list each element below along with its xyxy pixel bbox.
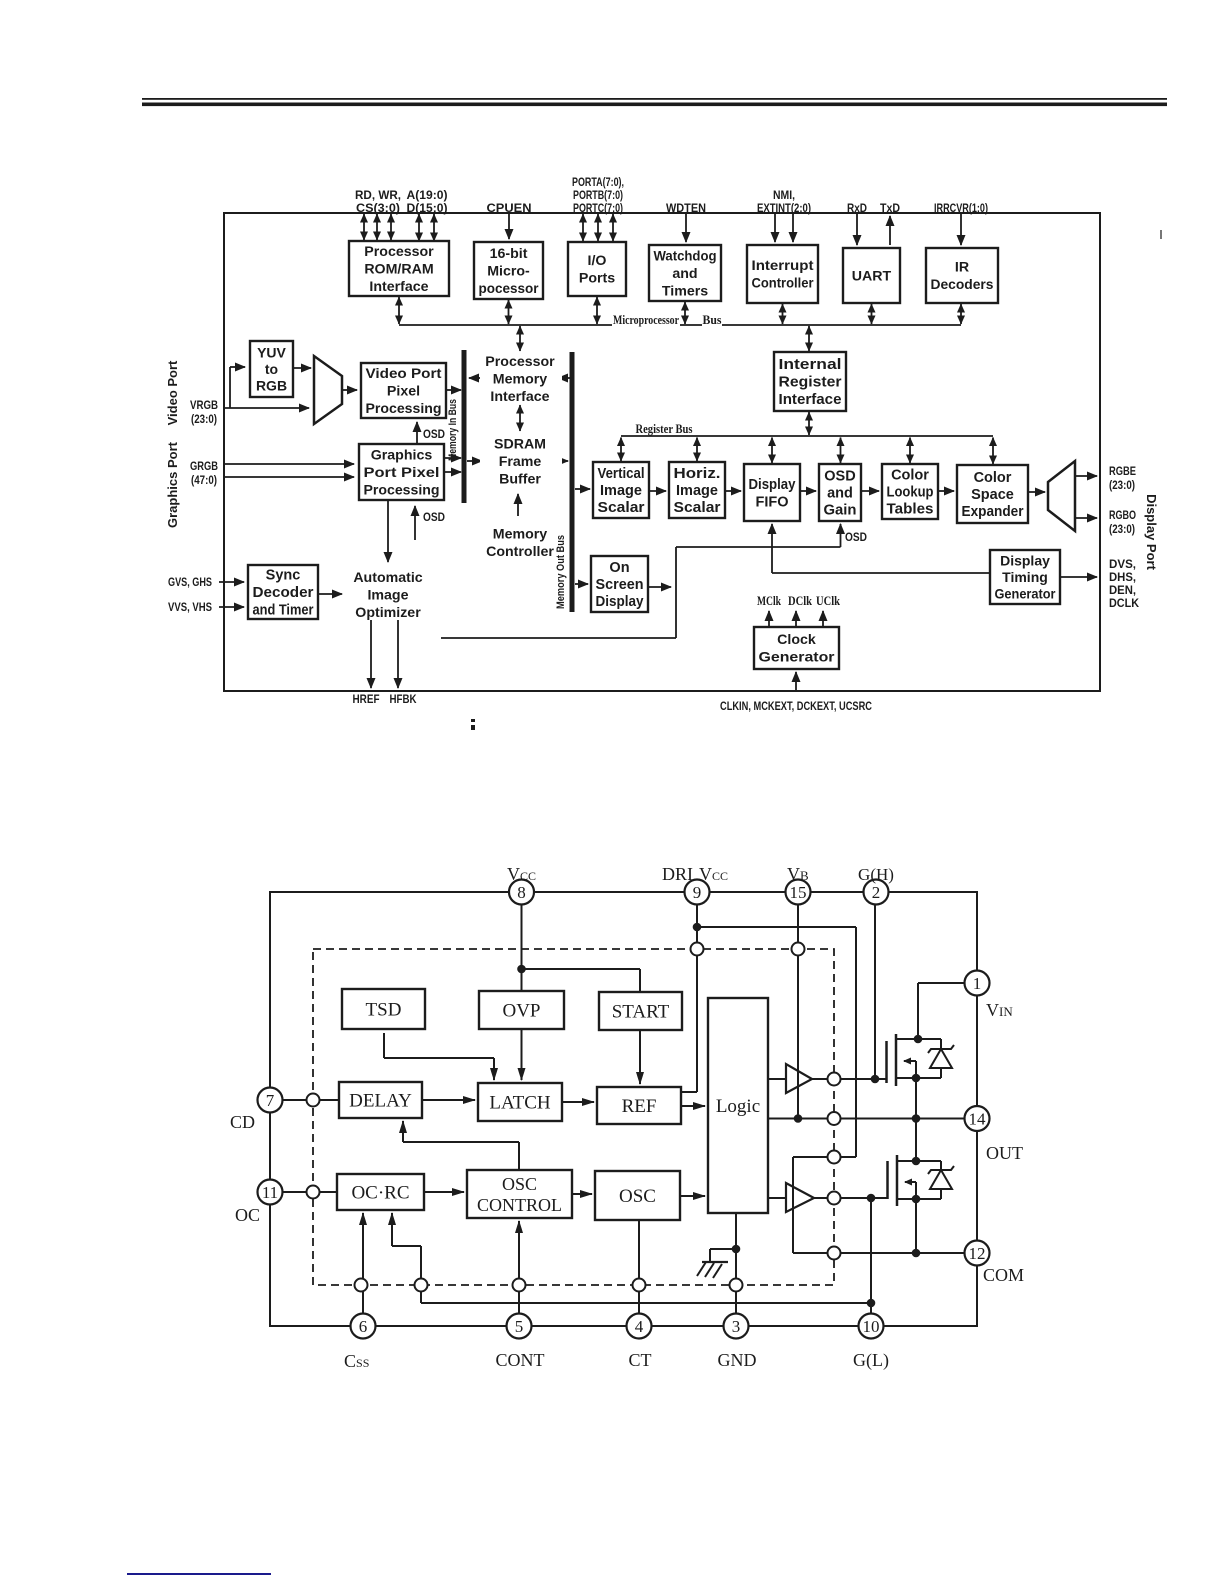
svg-text:DHS,: DHS,: [1109, 570, 1136, 584]
svg-text:DVS,: DVS,: [1109, 557, 1136, 571]
svg-text:ROM/RAM: ROM/RAM: [364, 261, 433, 277]
svg-text:Buffer: Buffer: [499, 471, 541, 487]
svg-text:GND: GND: [718, 1350, 757, 1370]
svg-text:DRI: DRI: [662, 864, 693, 884]
svg-text:Horiz.: Horiz.: [674, 466, 721, 482]
svg-text:Micro-: Micro-: [487, 263, 530, 279]
svg-text:Video Port: Video Port: [366, 366, 442, 382]
svg-text:Graphics Port: Graphics Port: [165, 441, 180, 528]
svg-text:Display: Display: [1000, 552, 1050, 568]
svg-text:Space: Space: [971, 487, 1014, 503]
svg-text:Controller: Controller: [752, 276, 814, 292]
svg-text:4: 4: [635, 1317, 644, 1336]
svg-text:D(15:0): D(15:0): [407, 201, 448, 215]
svg-text:Scalar: Scalar: [674, 500, 721, 516]
svg-text:Decoder: Decoder: [253, 585, 314, 601]
svg-text:G(H): G(H): [858, 865, 894, 884]
svg-text:RxD: RxD: [847, 201, 867, 215]
svg-text:and Timer: and Timer: [253, 603, 314, 619]
svg-text:UART: UART: [852, 268, 892, 284]
svg-text:2: 2: [872, 883, 881, 902]
svg-text:HFBK: HFBK: [390, 692, 417, 706]
svg-text:DEN,: DEN,: [1109, 583, 1136, 597]
svg-text:HREF: HREF: [353, 692, 380, 706]
svg-text:Interface: Interface: [779, 392, 842, 408]
svg-text:OSD: OSD: [423, 427, 445, 441]
svg-text:START: START: [612, 1002, 670, 1023]
svg-text:RGBE: RGBE: [1109, 464, 1136, 478]
svg-text:Interface: Interface: [369, 279, 428, 295]
svg-text:GRGB: GRGB: [190, 459, 218, 473]
svg-text:16-bit: 16-bit: [490, 246, 528, 262]
svg-text:(23:0): (23:0): [191, 412, 217, 426]
svg-text:DClk: DClk: [788, 593, 813, 608]
svg-text:5: 5: [515, 1317, 524, 1336]
svg-text:Timing: Timing: [1002, 569, 1048, 585]
svg-text:Interface: Interface: [490, 389, 549, 405]
svg-text:Processing: Processing: [366, 401, 442, 417]
svg-text:RD, WR,: RD, WR,: [355, 188, 401, 202]
svg-text:Display: Display: [596, 594, 644, 610]
svg-text:Memory In Bus: Memory In Bus: [447, 399, 459, 461]
svg-text:A(19:0): A(19:0): [407, 188, 448, 202]
svg-text:Microprocessor: Microprocessor: [613, 312, 679, 327]
svg-text:and: and: [672, 266, 697, 282]
svg-text:8: 8: [517, 883, 526, 902]
svg-text:OUT: OUT: [986, 1143, 1023, 1163]
svg-text:6: 6: [359, 1317, 368, 1336]
svg-text:Lookup: Lookup: [887, 485, 934, 501]
svg-text:OVP: OVP: [502, 1001, 540, 1022]
svg-text:to: to: [265, 361, 278, 377]
svg-text:12: 12: [969, 1244, 986, 1263]
svg-text:Image: Image: [367, 587, 408, 603]
svg-text:Tables: Tables: [887, 502, 934, 518]
svg-text:PORTC(7:0): PORTC(7:0): [573, 201, 623, 215]
svg-text:FIFO: FIFO: [755, 494, 788, 510]
svg-text:UClk: UClk: [816, 593, 841, 608]
svg-text:OC·RC: OC·RC: [351, 1183, 409, 1204]
svg-text:Controller: Controller: [486, 544, 554, 560]
svg-text:CPUEN: CPUEN: [487, 201, 532, 215]
svg-text:10: 10: [863, 1317, 880, 1336]
svg-text:I/O: I/O: [588, 253, 607, 269]
svg-text:YUV: YUV: [257, 344, 286, 360]
svg-text:CONT: CONT: [496, 1350, 545, 1370]
svg-text:Decoders: Decoders: [931, 277, 994, 293]
svg-text:(23:0): (23:0): [1109, 478, 1135, 492]
svg-text:Sync: Sync: [266, 568, 301, 584]
svg-text:Bus: Bus: [703, 312, 722, 327]
svg-text:RGB: RGB: [256, 377, 287, 393]
svg-text:Processing: Processing: [364, 482, 440, 498]
svg-text:CONTROL: CONTROL: [477, 1195, 562, 1215]
svg-text:PORTB(7:0): PORTB(7:0): [573, 188, 623, 202]
svg-text:PORTA(7:0),: PORTA(7:0),: [572, 175, 624, 189]
svg-text:Display: Display: [749, 477, 796, 493]
svg-text:CS(3:0): CS(3:0): [356, 201, 400, 215]
svg-text:OSD: OSD: [423, 510, 445, 524]
svg-text:MClk: MClk: [757, 593, 782, 608]
svg-text:VVS, VHS: VVS, VHS: [168, 600, 212, 614]
svg-text:7: 7: [266, 1091, 275, 1110]
svg-text:Graphics: Graphics: [371, 447, 433, 463]
svg-text:NMI,: NMI,: [773, 188, 795, 202]
svg-text:Interrupt: Interrupt: [752, 258, 814, 274]
svg-text:Screen: Screen: [596, 577, 644, 593]
svg-text:Memory: Memory: [493, 527, 548, 543]
svg-text:9: 9: [693, 883, 702, 902]
svg-text:TSD: TSD: [366, 1000, 402, 1021]
svg-text:Automatic: Automatic: [353, 570, 422, 586]
svg-text:Vertical: Vertical: [598, 466, 645, 482]
svg-text:(47:0): (47:0): [191, 473, 217, 487]
svg-text:Generator: Generator: [759, 650, 836, 666]
svg-text:Processor: Processor: [485, 354, 555, 370]
svg-text:On: On: [609, 560, 629, 576]
svg-text:and: and: [827, 486, 853, 502]
svg-text:Expander: Expander: [962, 504, 1024, 520]
svg-text:Image: Image: [600, 483, 642, 499]
svg-text:Video Port: Video Port: [165, 360, 180, 425]
svg-text:DCLK: DCLK: [1109, 596, 1139, 610]
svg-text:Pixel: Pixel: [387, 383, 420, 399]
svg-text:Memory Out Bus: Memory Out Bus: [555, 535, 567, 609]
svg-text:Generator: Generator: [995, 585, 1056, 601]
svg-text:G(L): G(L): [853, 1350, 889, 1371]
svg-text:CD: CD: [230, 1112, 255, 1132]
svg-text:15: 15: [790, 883, 807, 902]
svg-text:RGBO: RGBO: [1109, 508, 1136, 522]
svg-text:OSD: OSD: [845, 530, 867, 544]
svg-text:IRRCVR(1:0): IRRCVR(1:0): [934, 201, 988, 215]
svg-text:(23:0): (23:0): [1109, 522, 1135, 536]
svg-text:OSD: OSD: [824, 469, 855, 485]
svg-text:EXTINT(2:0): EXTINT(2:0): [757, 201, 811, 215]
svg-text:3: 3: [732, 1317, 741, 1336]
svg-text:VRGB: VRGB: [190, 398, 218, 412]
svg-text:Scalar: Scalar: [598, 500, 645, 516]
svg-text:TxD: TxD: [880, 201, 900, 215]
svg-text:Port Pixel: Port Pixel: [364, 465, 440, 481]
svg-text:Logic: Logic: [716, 1096, 760, 1117]
svg-text:Color: Color: [974, 470, 1012, 486]
svg-text:IR: IR: [955, 260, 969, 276]
svg-text:OSC: OSC: [502, 1174, 537, 1194]
svg-text:Optimizer: Optimizer: [355, 605, 421, 621]
svg-text:Clock: Clock: [777, 632, 816, 648]
svg-text:14: 14: [969, 1109, 987, 1128]
svg-text:DELAY: DELAY: [349, 1091, 412, 1112]
svg-text:Display Port: Display Port: [1144, 494, 1159, 571]
svg-text:Ports: Ports: [579, 271, 615, 287]
svg-text:GVS, GHS: GVS, GHS: [168, 575, 212, 589]
svg-text:OC: OC: [235, 1205, 260, 1225]
svg-text:Processor: Processor: [364, 244, 434, 260]
svg-text:Frame: Frame: [499, 454, 542, 470]
svg-text:11: 11: [262, 1183, 278, 1202]
svg-text:SDRAM: SDRAM: [494, 436, 546, 452]
svg-text:REF: REF: [622, 1096, 657, 1117]
svg-text:Watchdog: Watchdog: [654, 248, 717, 264]
svg-text:Memory: Memory: [493, 371, 548, 387]
svg-text:CLKIN, MCKEXT, DCKEXT, UCSRC: CLKIN, MCKEXT, DCKEXT, UCSRC: [720, 699, 872, 713]
svg-text:pocessor: pocessor: [479, 281, 539, 297]
svg-text:Image: Image: [676, 483, 718, 499]
svg-text:Register: Register: [779, 375, 842, 391]
svg-text:Color: Color: [891, 468, 929, 484]
svg-text:OSC: OSC: [619, 1186, 656, 1207]
svg-text:WDTEN: WDTEN: [666, 201, 706, 215]
svg-text:COM: COM: [983, 1265, 1024, 1285]
svg-text:CT: CT: [628, 1350, 651, 1370]
svg-text:Register Bus: Register Bus: [636, 421, 693, 436]
svg-text:Timers: Timers: [662, 283, 708, 299]
svg-text:LATCH: LATCH: [489, 1093, 551, 1114]
svg-text:Internal: Internal: [779, 357, 842, 373]
svg-text:1: 1: [973, 974, 982, 993]
svg-text:Gain: Gain: [824, 503, 857, 519]
